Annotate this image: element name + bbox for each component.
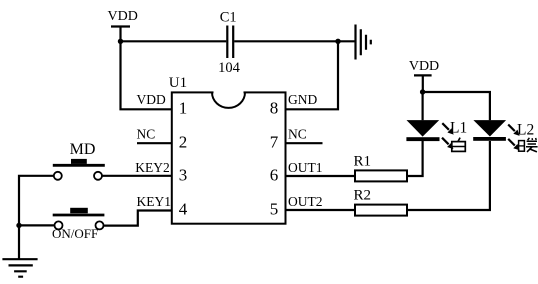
svg-text:VDD: VDD [409, 59, 439, 74]
svg-text:OUT2: OUT2 [288, 194, 323, 209]
resistor R2 [354, 188, 408, 216]
svg-text:R1: R1 [354, 154, 372, 170]
ground (top right, rotated) [356, 25, 371, 60]
svg-text:KEY1: KEY1 [137, 194, 172, 209]
node junction left rail [16, 223, 21, 228]
wire MD button to pin 3 [102, 175, 172, 177]
wire MD to left rail [19, 176, 54, 226]
wire VDD rail drop to pin 1 [121, 41, 172, 109]
notch of U1 [214, 91, 244, 94]
op IC U1 body [172, 92, 286, 223]
svg-text:8: 8 [270, 99, 279, 118]
pushbutton ON/OFF [52, 208, 104, 241]
wire C1 to ground [234, 40, 354, 42]
power symbol VDD (right) [409, 59, 439, 92]
node junction GND rail [335, 39, 340, 44]
wire pin 5 to R2 [286, 209, 356, 211]
resistor R1 [354, 154, 408, 182]
svg-text:C1: C1 [220, 9, 237, 25]
wire VDD rail to C1 [121, 40, 227, 42]
svg-text:104: 104 [218, 60, 241, 76]
svg-text:3: 3 [179, 165, 188, 184]
node junction VDD/C1 [118, 39, 123, 44]
svg-text:GND: GND [288, 92, 317, 107]
wire VDD rail to LED anodes [423, 92, 490, 120]
svg-text:VDD: VDD [137, 92, 166, 107]
svg-text:5: 5 [270, 199, 279, 218]
label warm (CJK) [519, 138, 538, 152]
svg-text:R2: R2 [354, 188, 372, 204]
svg-text:KEY2: KEY2 [135, 160, 170, 175]
wire pin 7 NC stub [286, 142, 323, 144]
svg-text:U1: U1 [169, 75, 187, 91]
wire ON/OFF button to pin 4 [104, 211, 172, 226]
power symbol VDD (top left) [108, 9, 138, 42]
svg-text:VDD: VDD [108, 9, 138, 24]
svg-text:OUT1: OUT1 [288, 160, 323, 175]
svg-text:1: 1 [179, 99, 188, 118]
ground (bottom left) [2, 259, 37, 277]
svg-text:2: 2 [179, 133, 188, 152]
svg-text:4: 4 [179, 199, 188, 218]
wire pin8 GND to top rail [286, 41, 339, 109]
capacitor C1 [220, 9, 237, 58]
svg-text:NC: NC [288, 126, 307, 141]
wire ON/OFF to left rail [19, 224, 55, 226]
LED L1 [406, 120, 453, 149]
svg-text:6: 6 [270, 165, 279, 184]
LED L2 [473, 120, 519, 150]
label white (CJK) [452, 138, 466, 152]
wire pin 6 to R1 [286, 175, 356, 177]
wire R1 to LED L1 cathode [407, 141, 423, 176]
wire left rail to ground [18, 225, 20, 259]
wire R2 to LED L2 cathode [407, 141, 490, 210]
svg-text:L2: L2 [517, 121, 534, 138]
svg-text:ON/OFF: ON/OFF [52, 226, 98, 241]
svg-text:L1: L1 [450, 120, 467, 137]
svg-text:7: 7 [270, 133, 279, 152]
svg-text:NC: NC [137, 126, 156, 141]
wire pin 2 NC stub [137, 142, 172, 144]
node junction VDD LEDs [420, 89, 425, 94]
svg-text:MD: MD [70, 141, 96, 158]
pushbutton MD [53, 141, 105, 180]
